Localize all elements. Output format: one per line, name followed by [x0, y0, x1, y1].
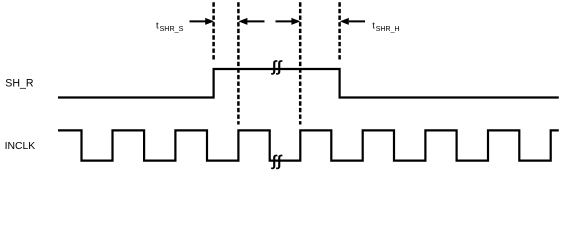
arrow A1 (right, to line 1) — [190, 18, 215, 25]
arrow A3 (right, to line 3) — [276, 18, 301, 25]
svg-text:SHR_S: SHR_S — [160, 24, 184, 33]
svg-text:INCLK: INCLK — [5, 141, 36, 152]
wire INCLK waveform — [58, 130, 559, 160]
dashed marker line 4 (SH_R fall reference) — [338, 2, 341, 60]
svg-text:SH_R: SH_R — [5, 78, 34, 90]
svg-text:SHR_H: SHR_H — [376, 26, 400, 33]
dashed marker line 3 (INCLK rise after break) — [299, 2, 302, 124]
label t_SHR_H — [372, 20, 399, 33]
svg-text:∫∫: ∫∫ — [270, 153, 283, 170]
wire SH_R waveform — [58, 69, 559, 98]
arrow A4 (left, to line 4) — [340, 18, 365, 25]
arrow A2 (left, to line 2) — [238, 18, 264, 25]
svg-text:∫∫: ∫∫ — [270, 59, 283, 76]
dashed marker line 2 (INCLK rise before break) — [237, 2, 240, 124]
dashed marker line 1 (SH_R rise reference) — [212, 2, 215, 60]
label t_SHR_S — [156, 20, 184, 33]
